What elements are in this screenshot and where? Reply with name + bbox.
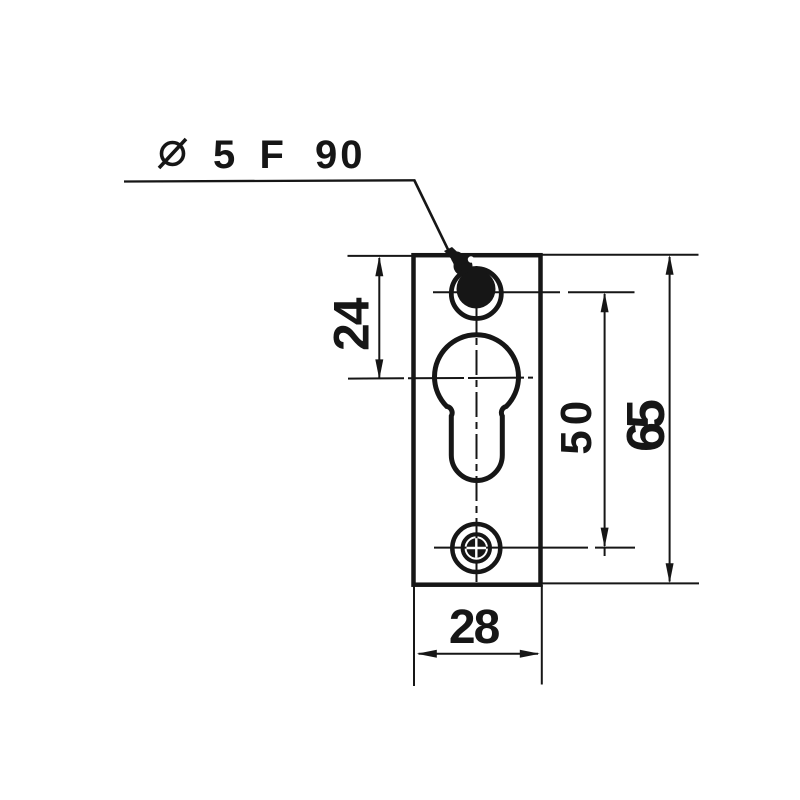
svg-text:50: 50 (552, 396, 601, 455)
bottom hole center disc (467, 538, 487, 558)
dim 50 line (604, 294, 606, 546)
extension line top-right (for dim 65) (543, 254, 699, 256)
dim 24 arrow up (375, 256, 383, 276)
dim 28 line (419, 653, 539, 655)
plate outline (414, 255, 541, 585)
extension line top-left (for dim 24) (348, 255, 412, 257)
centerline top hole horizontal (also dim 50 extension) (433, 291, 635, 293)
svg-text:90: 90 (315, 133, 366, 177)
top hole filled blob with leader arrow (444, 247, 496, 309)
svg-text:28: 28 (449, 601, 500, 654)
centerline keyhole horizontal (also dim 24 extension) (348, 378, 533, 379)
dim 50 arrow up (601, 292, 609, 312)
keyhole cutout (euro profile) (435, 335, 519, 481)
extension line below-right (for dim 28) (541, 585, 543, 685)
dim 24 arrow down (375, 359, 383, 379)
bottom hole middle ring (463, 534, 490, 561)
bottom hole white cross (467, 538, 487, 558)
dim 50 arrow down (601, 528, 609, 548)
dim 65 arrow up (666, 255, 674, 275)
svg-text:F: F (260, 133, 284, 177)
leader line horizontal (124, 180, 415, 181)
dim 28 arrow left (417, 650, 437, 658)
extension line below-left (for dim 28) (413, 585, 415, 686)
svg-text:24: 24 (324, 297, 380, 351)
top hole white notch (468, 256, 474, 262)
label text "ø 5 F 90" (159, 133, 366, 177)
top hole ring (451, 269, 501, 319)
svg-text:65: 65 (616, 400, 676, 452)
extension line bottom-right (for dim 65) (543, 582, 700, 584)
bottom hole outer ring (452, 524, 500, 572)
dim 50 overshoot stub (604, 548, 606, 556)
leader line diagonal (414, 180, 456, 267)
svg-text:5: 5 (213, 133, 235, 177)
centerline vertical (476, 266, 478, 582)
dim 65 arrow down (666, 563, 674, 583)
dim 65 line (669, 257, 671, 582)
dim 24 line (378, 258, 380, 378)
dim 28 arrow right (520, 650, 540, 658)
centerline bottom hole horizontal (also dim 50 extension) (434, 547, 635, 549)
